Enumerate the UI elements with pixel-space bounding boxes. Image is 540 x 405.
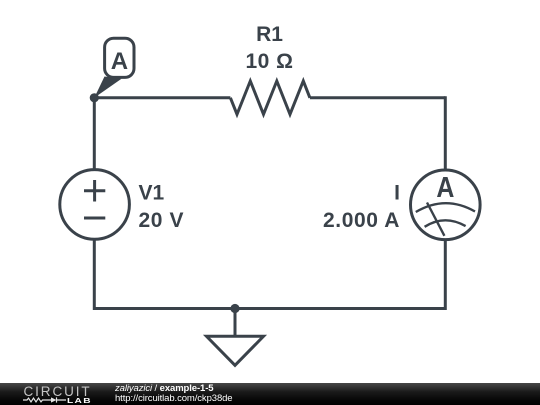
svg-text:R1: R1 [256,23,283,46]
ground junction dot [230,304,239,313]
wire left vertical lower [93,239,96,310]
wire right vertical lower [444,239,447,310]
wire right vertical upper [444,96,447,170]
footer title text [115,384,213,394]
node A flag pointer [94,77,121,98]
V1 minus sign [84,217,105,220]
ammeter lower scale arc [425,220,466,226]
CircuitLab logo wordmark CIRCUIT [24,385,92,399]
V1 plus sign [84,180,105,202]
svg-text:10 Ω: 10 Ω [245,50,293,73]
node A junction dot [90,93,99,102]
voltage source V1 circle [60,170,130,240]
wire left vertical upper [93,96,96,170]
svg-text:A: A [436,172,454,204]
node A flag box [105,38,134,77]
footer url text [115,394,233,404]
resistor R1 [230,81,310,114]
footer bar [0,383,540,405]
CircuitLab logo wordmark LAB [67,397,92,405]
svg-text:20 V: 20 V [139,209,185,232]
wire top-left segment (node A to R1) [94,96,230,99]
ammeter needle [427,203,444,236]
ground stub wire [234,309,237,337]
ground [207,336,264,365]
svg-text:A: A [111,48,128,75]
CircuitLab logo schematic squiggle [23,397,66,403]
svg-text:I: I [394,182,400,205]
ammeter upper scale arc [416,203,475,212]
ammeter U1 circle [411,170,481,240]
wire top-right segment (R1 to ammeter) [310,96,445,99]
svg-text:V1: V1 [139,182,165,205]
wire bottom segment [94,307,445,310]
svg-text:2.000 A: 2.000 A [323,209,400,232]
